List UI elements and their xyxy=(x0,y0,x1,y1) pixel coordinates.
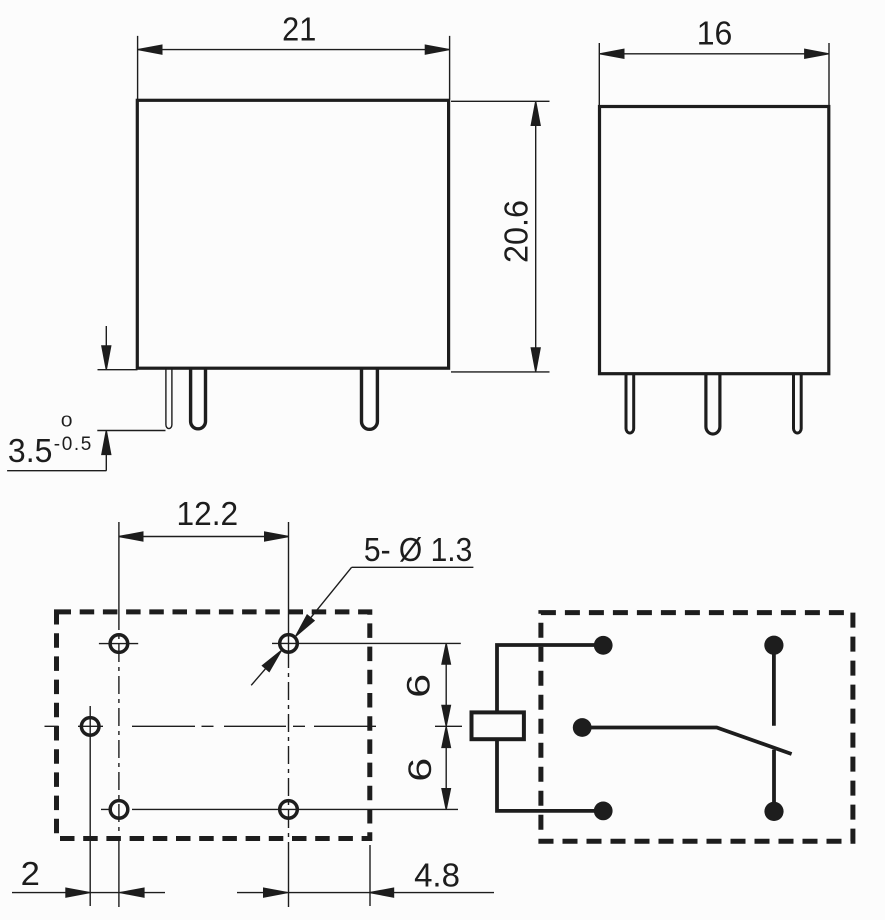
row1 extension line xyxy=(272,642,461,644)
dimension 6/6: dimension line xyxy=(445,643,447,809)
dimension 3.5: vertical dim line segments xyxy=(105,326,107,471)
hole H1 top-left xyxy=(110,635,128,653)
svg-text:6: 6 xyxy=(402,674,437,698)
dimension 20.6: extension lines xyxy=(451,101,550,372)
dimension 21: arrows xyxy=(138,45,162,54)
relay body side view xyxy=(600,107,829,374)
centerline col2 xyxy=(288,522,290,650)
svg-text:2: 2 xyxy=(21,856,40,893)
svg-text:20.6: 20.6 xyxy=(497,200,534,263)
terminal dot common xyxy=(573,718,592,737)
pin 1 front (thin) xyxy=(166,368,172,428)
leader 5-O1.3: tail segment below hole xyxy=(251,654,278,686)
pin 3 side xyxy=(794,375,802,433)
hole H3 middle-left xyxy=(81,718,99,736)
dimension 3.5: extension lines xyxy=(7,370,165,471)
svg-text:16: 16 xyxy=(697,15,733,52)
pin 2 side (middle) xyxy=(706,375,720,434)
dimension 2: dimension line xyxy=(12,892,165,894)
leader 5-O1.3: underline xyxy=(352,566,474,568)
dimension 3.5: arrows xyxy=(102,346,111,370)
dimension 12.2: dimension line xyxy=(119,536,289,538)
terminal dot coil bottom xyxy=(594,802,613,821)
svg-text:0: 0 xyxy=(61,412,73,430)
coil xyxy=(472,712,524,739)
svg-text:5- Ø 1.3: 5- Ø 1.3 xyxy=(364,531,472,569)
svg-text:-0.5: -0.5 xyxy=(54,434,93,455)
relay body front view xyxy=(137,100,448,368)
dimension 16: dimension line xyxy=(600,53,829,55)
centerline col1 xyxy=(118,522,120,612)
leader 5-O1.3: diagonal to hole xyxy=(298,567,352,633)
extension line 4.8 right xyxy=(369,845,371,906)
pin 3 front xyxy=(362,368,378,429)
dimension 4.8: arrows xyxy=(264,888,288,897)
horizontal centerline row2 xyxy=(45,725,463,727)
dimension 20.6: dimension line xyxy=(535,102,537,372)
pin 1 side xyxy=(626,375,634,433)
svg-text:4.8: 4.8 xyxy=(414,857,460,894)
dimension 16: arrows xyxy=(600,49,624,58)
NC contact wire top-right xyxy=(772,645,776,726)
dimension 20.6: arrows xyxy=(531,102,540,126)
dimension 4.8: dimension line xyxy=(237,892,494,894)
dimension 2: arrows xyxy=(66,888,90,897)
dimension 6/6: arrows xyxy=(442,644,450,665)
terminal dot NC xyxy=(764,636,783,655)
dimension 21: dimension line xyxy=(138,49,449,51)
terminal dot coil top xyxy=(594,636,613,655)
svg-text:6: 6 xyxy=(403,758,438,782)
schematic dashed box xyxy=(541,613,853,842)
NO contact wire bottom-right xyxy=(772,750,776,812)
common contact wire + armature xyxy=(582,728,791,755)
row3 extension line xyxy=(101,808,458,810)
svg-text:12.2: 12.2 xyxy=(176,495,238,532)
dimension 12.2: arrows xyxy=(119,532,143,541)
footprint outline dashed box xyxy=(57,612,370,839)
dimension 16: extension lines xyxy=(599,43,829,105)
terminal dot NO xyxy=(764,802,783,821)
hole H5 bottom-right xyxy=(280,801,298,819)
coil wire bottom xyxy=(497,739,603,811)
svg-text:3.5: 3.5 xyxy=(8,432,52,469)
hole H2 top-right xyxy=(280,635,298,653)
svg-text:21: 21 xyxy=(282,11,316,48)
crosshair H1 horizontal xyxy=(99,643,138,645)
pin 2 front xyxy=(191,368,206,429)
hole H4 bottom-left xyxy=(110,801,128,819)
coil wire top xyxy=(497,645,603,712)
dimension 21: extension lines xyxy=(138,36,450,100)
centerline col3 (middle-left hole) xyxy=(89,706,91,906)
